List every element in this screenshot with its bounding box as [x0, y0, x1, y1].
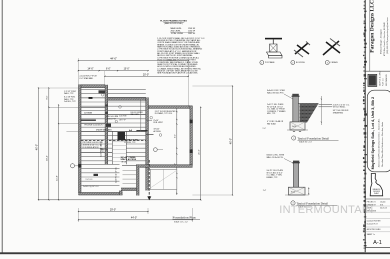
svg-text:WALL ON 8x16 FTG.: WALL ON 8x16 FTG. — [267, 156, 284, 159]
svg-text:4x8 BEAM: 4x8 BEAM — [84, 112, 93, 115]
svg-text:Mayfield Springs Sub., Lot 4,: Mayfield Springs Sub., Lot 4, Unit 3, Bl… — [371, 97, 375, 170]
svg-text:4775 Blue Creek Ln. Meridian,: 4775 Blue Creek Ln. Meridian, ID 83642 — [383, 22, 386, 56]
svg-text:W/ LID: W/ LID — [122, 161, 128, 163]
svg-text:44'-0": 44'-0" — [110, 57, 117, 61]
svg-text:MIN., TYP.: MIN., TYP. — [267, 113, 276, 115]
svg-text:44'-0": 44'-0" — [131, 217, 137, 220]
svg-text:Meridian Place West Subdivisio: Meridian Place West Subdivision - Meridi… — [381, 121, 384, 167]
svg-text:SHEATHING: SHEATHING — [333, 111, 344, 114]
svg-text:(208) 555-0179 paragondesign: (208) 555-0179 paragondesigns@mail.com — [386, 17, 389, 54]
svg-text:05-02-13 PLOT: 05-02-13 PLOT — [367, 224, 378, 226]
svg-text:SEE FOUNDATION PLAN FOR LOCATI: SEE FOUNDATION PLAN FOR LOCATIONS. — [157, 72, 198, 75]
svg-text:ACCESS: ACCESS — [154, 130, 162, 133]
svg-text:WALL, TYP.: WALL, TYP. — [64, 92, 74, 95]
svg-text:1'-4": 1'-4" — [263, 128, 267, 130]
svg-text:Michael Siegel - Designer: Michael Siegel - Designer — [380, 29, 383, 54]
svg-text:2x10 RIM: 2x10 RIM — [119, 116, 127, 118]
svg-text:(MAIN FLOOR LEVEL): (MAIN FLOOR LEVEL) — [164, 22, 183, 25]
svg-text:6'-0" SPAN MAX.: 6'-0" SPAN MAX. — [80, 77, 94, 80]
svg-text:04-19-13: 04-19-13 — [380, 208, 387, 210]
svg-text:40'-0": 40'-0" — [35, 144, 38, 150]
svg-text:29'-0": 29'-0" — [110, 208, 116, 211]
svg-text:8x16: 8x16 — [291, 191, 295, 193]
svg-text:2x6 SILL, TYP.: 2x6 SILL, TYP. — [64, 101, 76, 103]
svg-text:JOIST, TYP.: JOIST, TYP. — [107, 119, 117, 121]
svg-text:SHEET # ▴: SHEET # ▴ — [367, 233, 375, 236]
svg-text:Foundation Plan: Foundation Plan — [173, 215, 196, 219]
svg-text:3: 3 — [327, 62, 328, 64]
svg-text:1: 1 — [261, 62, 262, 64]
svg-text:2: 2 — [293, 138, 294, 140]
svg-text:11'-8": 11'-8" — [56, 175, 58, 181]
svg-text:9'-2": 9'-2" — [175, 134, 177, 138]
svg-text:EMBED, TYP.: EMBED, TYP. — [267, 177, 279, 179]
svg-text:R-19 INSULATION: R-19 INSULATION — [83, 146, 99, 149]
svg-text:Paragon Designs LLC: Paragon Designs LLC — [370, 0, 376, 53]
svg-text:1'-0" O.C.: 1'-0" O.C. — [86, 179, 94, 181]
svg-text:Typical Foundation Detail: Typical Foundation Detail — [298, 137, 330, 141]
svg-text:DESIGNS: DESIGNS — [373, 191, 380, 193]
svg-text:21'-0": 21'-0" — [199, 149, 201, 155]
svg-text:2: 2 — [292, 62, 293, 64]
svg-text:X BRACE: X BRACE — [330, 61, 338, 64]
svg-text:18'-4": 18'-4" — [47, 155, 49, 161]
svg-text:04-26-13 FDN REV: 04-26-13 FDN REV — [367, 221, 382, 223]
svg-text:2x10 FJ @ 16" OC: 2x10 FJ @ 16" OC — [100, 140, 102, 156]
svg-text:2x10 FJ @ 16" OC: 2x10 FJ @ 16" OC — [116, 166, 118, 182]
svg-text:POST BASE: POST BASE — [265, 61, 275, 64]
svg-text:40'-0": 40'-0" — [229, 138, 232, 144]
svg-text:8x16: 8x16 — [292, 126, 296, 128]
svg-text:PLOT: 1=1: PLOT: 1=1 — [383, 78, 385, 86]
svg-text:Jackson and Phoenix Developmen: Jackson and Phoenix Development LLC - Ja… — [377, 118, 380, 168]
svg-text:TOTAL LIVING: TOTAL LIVING — [171, 32, 184, 35]
svg-text:INTERMOUNTAIN: INTERMOUNTAIN — [279, 204, 373, 216]
svg-text:4x8: 4x8 — [129, 129, 132, 132]
svg-text:20'-0": 20'-0" — [143, 73, 149, 76]
svg-text:14'-0": 14'-0" — [87, 68, 93, 71]
svg-text:BLOCKING: BLOCKING — [296, 62, 305, 64]
svg-text:W/ R-19 INSUL.: W/ R-19 INSUL. — [333, 107, 346, 109]
svg-text:UNDER WALL ABV.: UNDER WALL ABV. — [96, 129, 112, 132]
svg-text:1'-4": 1'-4" — [263, 190, 267, 192]
svg-text:MAIN LEVEL: MAIN LEVEL — [171, 27, 182, 30]
svg-text:A-1: A-1 — [373, 240, 382, 246]
svg-text:PROVIDE 2x10 DBL FJ: PROVIDE 2x10 DBL FJ — [84, 125, 103, 127]
svg-text:IN CRAWL, TYP. OF 4: IN CRAWL, TYP. OF 4 — [155, 112, 172, 115]
svg-text:WALL ON 8x16 FTG.: WALL ON 8x16 FTG. — [267, 91, 284, 94]
svg-text:8'-0": 8'-0" — [47, 95, 49, 99]
svg-text:2x10 FJ @ 16" O.C.: 2x10 FJ @ 16" O.C. — [83, 186, 100, 188]
svg-text:6'-0": 6'-0" — [106, 69, 111, 71]
svg-text:WALL ABV.: WALL ABV. — [131, 113, 140, 116]
svg-text:FDN. VENT: FDN. VENT — [154, 122, 164, 124]
svg-text:2382 SF: 2382 SF — [188, 33, 196, 35]
svg-text:13-044: 13-044 — [380, 201, 385, 203]
svg-text:11" RUN, TYP.: 11" RUN, TYP. — [124, 142, 136, 144]
svg-text:JST TYP: JST TYP — [119, 120, 127, 122]
svg-text:10'-0": 10'-0" — [124, 69, 130, 71]
svg-text:RAT SLAB: RAT SLAB — [267, 122, 276, 125]
